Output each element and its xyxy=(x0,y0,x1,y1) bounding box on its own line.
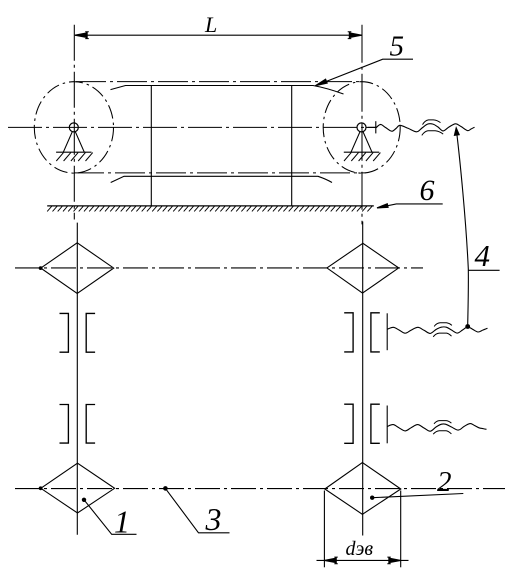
cable break mark top xyxy=(422,120,443,135)
guide bracket left upper-left xyxy=(60,313,69,352)
svg-text:5: 5 xyxy=(390,31,405,63)
label 6 leader xyxy=(377,204,443,208)
cable anchor line middle xyxy=(386,313,388,350)
label 4 shelf xyxy=(468,269,499,271)
frame leg left xyxy=(150,86,152,206)
belt top line xyxy=(76,81,362,83)
drum right (phantom ellipse) xyxy=(323,82,400,173)
centerline stub at right drum xyxy=(366,126,376,128)
dimension d extension line right xyxy=(400,491,402,568)
svg-text:4: 4 xyxy=(475,238,491,273)
ground line 6 xyxy=(47,206,374,212)
frame leg right xyxy=(291,86,293,206)
idler 1 bottom-left diamond xyxy=(41,463,115,513)
guide bracket left lower-left xyxy=(60,405,69,444)
guide bracket right lower-right xyxy=(371,404,380,443)
pivot support right drum xyxy=(344,123,381,161)
svg-text:L: L xyxy=(204,12,217,37)
svg-text:dэв: dэв xyxy=(346,538,374,560)
svg-text:2: 2 xyxy=(437,466,452,498)
centerline bottom idler row xyxy=(15,488,505,490)
dimension L right arrowhead xyxy=(348,32,362,39)
cable wavy line middle xyxy=(387,327,487,334)
idler 2 bottom-right diamond xyxy=(325,463,401,515)
belt bottom line xyxy=(74,172,366,174)
label 4 leader with arrow xyxy=(454,128,470,329)
dimension line L xyxy=(75,34,362,36)
svg-text:1: 1 xyxy=(114,504,130,540)
svg-text:3: 3 xyxy=(205,501,222,537)
frame bottom edge xyxy=(111,176,332,182)
idler top-right diamond xyxy=(327,243,399,293)
centerline vertical right drum xyxy=(361,25,363,225)
dot on left vertex bottom-left diamond xyxy=(39,486,43,490)
dimension L left arrowhead xyxy=(75,32,89,39)
cable break mark lower xyxy=(433,421,451,435)
label 1 leader xyxy=(82,498,137,535)
dimension d right arrowhead xyxy=(387,557,400,564)
centerline vertical left drum xyxy=(73,25,75,220)
guide bracket left lower-right xyxy=(344,404,353,443)
main horizontal centerline xyxy=(8,126,376,128)
left column line xyxy=(76,223,78,535)
svg-text:6: 6 xyxy=(420,174,435,207)
guide bracket right upper-right xyxy=(371,313,380,352)
label 2 leader xyxy=(370,494,463,500)
guide bracket left upper-right xyxy=(344,313,353,352)
dimension d line xyxy=(317,559,409,561)
dot on left vertex top-left diamond xyxy=(39,266,43,270)
dimension d left arrowhead xyxy=(324,557,337,564)
cable tick at right drum xyxy=(375,121,377,133)
centerline top idler row xyxy=(15,267,423,269)
cable wavy line lower xyxy=(387,424,486,432)
guide bracket right upper-left xyxy=(86,313,95,352)
label 5 leader xyxy=(315,59,413,85)
idler 1 top-left diamond xyxy=(41,243,114,294)
cable break mark middle xyxy=(433,323,452,337)
label 3 leader xyxy=(163,486,229,533)
frame top edge xyxy=(111,86,344,95)
cable wavy line top xyxy=(376,124,475,132)
pivot support left drum xyxy=(56,123,93,161)
drum 5 left (phantom ellipse) xyxy=(34,82,113,173)
cable anchor line lower xyxy=(386,406,388,444)
right column line xyxy=(362,222,364,536)
guide bracket right lower-left xyxy=(86,405,95,444)
dimension d extension line left xyxy=(323,491,325,568)
